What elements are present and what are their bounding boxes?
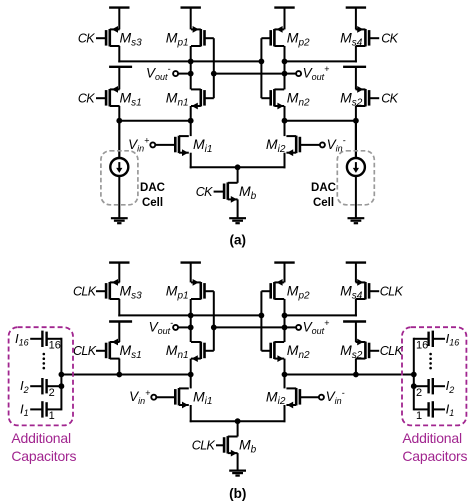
ground (DAC cell)	[111, 218, 128, 223]
capacitor bus (L bank)	[60, 338, 62, 411]
wire left output column (M_p1/M_n1 drains) (a)	[190, 46, 192, 89]
svg-text:Ms2: Ms2	[340, 90, 363, 109]
svg-text:Mn2: Mn2	[287, 90, 310, 109]
VDD rail symbol (M_s1, a)	[109, 67, 132, 90]
VDD rail symbol (M_s2, a)	[343, 67, 366, 90]
transistor M_i2 (a) NMOS	[286, 136, 319, 156]
transistor M_p2 (a) PMOS	[261, 26, 284, 46]
svg-text:Mp2: Mp2	[287, 30, 310, 49]
svg-text:CLK: CLK	[73, 344, 97, 358]
wire M_i1 source down (b)	[190, 405, 192, 422]
wire M_i1 source down (a)	[190, 153, 192, 169]
VDD rail symbol (right, M_s4, a)	[346, 8, 366, 30]
wire right output net: M_p2 drain to M_s4 drain (a)	[285, 60, 357, 62]
wire M_s2 drain to internal node (a)	[355, 106, 357, 122]
junction left internal node at M_n1 source (a)	[188, 118, 194, 124]
transistor M_s2 (a) PMOS	[356, 86, 380, 106]
input terminal V_in- (a)	[320, 142, 325, 147]
svg-text:Ms1: Ms1	[120, 342, 142, 361]
wire left output net: M_s3 drain across to right gate column (a)	[118, 60, 261, 62]
svg-text:Vin+: Vin+	[129, 388, 150, 406]
ground (tail, a)	[229, 218, 246, 223]
junction right internal node at M_n2 source (a)	[282, 118, 288, 124]
wire tail to M_b drain (b)	[237, 421, 239, 436]
junction right output net at left gate column (a)	[211, 71, 217, 77]
junction right output at M_p2 drain (b)	[282, 325, 288, 331]
junction capacitor bus to circuit (L bank)	[59, 372, 65, 378]
svg-text:1: 1	[416, 410, 422, 422]
svg-text:Vin+: Vin+	[128, 136, 149, 154]
svg-text:CLK: CLK	[380, 344, 404, 358]
svg-text:DAC: DAC	[140, 182, 165, 194]
VDD rail symbol (M_p2, b)	[274, 263, 294, 283]
wire M_n1 source / M_i1 drain column (a)	[190, 106, 192, 136]
junction right output at M_p2 drain (a)	[282, 71, 288, 77]
junction right internal node at M_s2 drain (a)	[353, 118, 359, 124]
svg-text:Mb: Mb	[239, 183, 257, 202]
wire right output net: M_p2 drain to M_s4 drain (b)	[285, 314, 357, 316]
svg-text:I16: I16	[15, 331, 29, 348]
junction capacitor bus to circuit (R bank)	[411, 372, 417, 378]
capacitor bus (R bank)	[413, 338, 415, 411]
junction at M_p2 drain upper (b)	[282, 313, 288, 319]
transistor M_n1 (b) NMOS	[191, 342, 214, 362]
transistor M_s2 (b) PMOS	[356, 339, 380, 359]
svg-text:CLK: CLK	[192, 439, 216, 453]
svg-text:I2: I2	[20, 378, 29, 395]
ground (tail, b)	[229, 471, 246, 476]
svg-text:Ms4: Ms4	[340, 283, 363, 302]
ellipsis dots (L bank)	[43, 353, 46, 370]
wire M_i2 source down (b)	[284, 405, 286, 422]
svg-text:Capacitors: Capacitors	[402, 448, 467, 464]
wire right gate column (b)	[260, 291, 262, 351]
transistor M_b (b) NMOS	[216, 436, 238, 456]
junction V_out- at left output column (a)	[188, 71, 194, 77]
junction at M_p2 drain upper (a)	[282, 59, 288, 65]
svg-text:Mn2: Mn2	[287, 342, 310, 361]
VDD rail symbol (M_s1, b)	[109, 322, 132, 343]
wire M_n2 source / M_i2 drain column (b)	[284, 359, 286, 389]
junction left internal node at M_s1 drain (a)	[116, 118, 122, 124]
transistor M_s1 (b) PMOS	[96, 339, 120, 359]
VDD rail symbol (left, M_s3, b)	[109, 263, 129, 283]
junction right internal node at M_s2 drain (b)	[353, 372, 359, 378]
transistor M_p2 (b) PMOS	[261, 279, 284, 299]
wire right output column (M_p2/M_n2 drains) (b)	[284, 299, 286, 342]
transistor M_p1 (a) PMOS	[191, 26, 214, 46]
wire right output column (M_p2/M_n2 drains) (a)	[284, 46, 286, 89]
junction left output at M_p1 drain (b)	[188, 313, 194, 319]
wire right internal node row (a)	[285, 120, 356, 122]
transistor M_s3 (a) PMOS	[96, 26, 120, 46]
svg-text:16: 16	[416, 340, 428, 352]
wire M_s4 drain to output row (b)	[355, 299, 357, 316]
svg-text:2: 2	[49, 387, 55, 399]
Additional Capacitors dashed box (R bank)	[402, 327, 466, 425]
Additional Capacitors dashed box (L bank)	[9, 327, 73, 425]
transistor M_i1 (a) NMOS	[156, 136, 189, 156]
svg-text:Mi1: Mi1	[193, 388, 212, 407]
transistor M_n2 (a) NMOS	[261, 89, 284, 109]
svg-text:I16: I16	[446, 331, 460, 348]
svg-text:Ms3: Ms3	[120, 30, 143, 49]
svg-text:(a): (a)	[230, 232, 247, 247]
DAC cell dashed box	[101, 151, 138, 205]
wire DAC current source to ground	[355, 176, 357, 219]
svg-text:Vout+: Vout+	[303, 64, 330, 82]
svg-text:I2: I2	[446, 378, 455, 395]
output terminal V_out- (b)	[173, 325, 191, 330]
wire left gate column (b)	[213, 291, 215, 351]
output terminal V_out- (a)	[173, 71, 191, 76]
junction tail node (a)	[235, 164, 241, 170]
junction capacitor C2 (L bank)	[59, 383, 65, 389]
junction left output at right gate column (b)	[259, 313, 265, 319]
VDD rail symbol (M_p2, a)	[274, 8, 294, 30]
svg-text:Mb: Mb	[239, 437, 257, 456]
svg-text:Vin-: Vin-	[326, 388, 345, 406]
wire M_b source to ground (a)	[237, 199, 239, 218]
svg-text:Mi2: Mi2	[266, 136, 286, 155]
svg-text:Mn1: Mn1	[166, 90, 189, 109]
VDD rail symbol (M_s2, b)	[343, 322, 366, 343]
ground (DAC cell)	[348, 218, 365, 223]
transistor M_s3 (b) PMOS	[96, 279, 120, 299]
wire internal node to DAC current source	[355, 122, 357, 158]
wire M_s3 drain to output row (b)	[118, 299, 120, 316]
DAC current source	[110, 158, 128, 176]
wire internal node to DAC current source	[118, 122, 120, 158]
junction tail node (b)	[235, 418, 241, 424]
svg-text:CLK: CLK	[380, 285, 404, 299]
svg-text:CK: CK	[78, 32, 95, 46]
junction right output net at left gate column (b)	[211, 325, 217, 331]
transistor M_s4 (b) PMOS	[356, 279, 380, 299]
input terminal V_in- (b)	[319, 395, 324, 400]
svg-text:16: 16	[49, 340, 61, 352]
wire M_n1 source / M_i1 drain column (b)	[190, 359, 192, 389]
svg-text:Capacitors: Capacitors	[11, 448, 76, 464]
transistor M_i2 (b) NMOS	[286, 388, 318, 408]
svg-text:Mp2: Mp2	[287, 283, 310, 302]
svg-text:Ms2: Ms2	[340, 342, 363, 361]
svg-text:Cell: Cell	[142, 197, 163, 209]
wire right output net to left gate column (b)	[214, 326, 285, 328]
wire tail to M_b drain (a)	[237, 167, 239, 183]
svg-text:Mi2: Mi2	[266, 388, 286, 407]
wire M_s1 drain to internal node (b)	[118, 359, 120, 376]
transistor M_s1 (a) PMOS	[96, 86, 120, 106]
svg-text:Mp1: Mp1	[166, 283, 189, 302]
svg-text:Additional: Additional	[402, 430, 462, 446]
VDD rail symbol (right, M_s4, b)	[346, 263, 366, 283]
VDD rail symbol (left, M_s3)	[109, 8, 129, 30]
DAC current source	[347, 158, 365, 176]
svg-text:Mp1: Mp1	[166, 30, 189, 49]
junction right internal node at M_n2 source (b)	[282, 372, 288, 378]
wire M_s1 drain to internal node (a)	[118, 106, 120, 122]
ellipsis dots (R bank)	[429, 353, 432, 370]
wire M_b source to ground (b)	[237, 453, 239, 471]
transistor M_i1 (b) NMOS	[157, 388, 189, 408]
wire left internal node row (a)	[119, 120, 190, 122]
svg-text:Additional: Additional	[11, 430, 71, 446]
svg-text:CK: CK	[196, 185, 213, 199]
svg-text:Mn1: Mn1	[166, 342, 189, 361]
wire left gate column (a)	[213, 38, 215, 98]
capacitor C16 (R bank)	[414, 331, 445, 347]
junction V_out- at left output column (b)	[188, 325, 194, 331]
svg-text:2: 2	[416, 387, 422, 399]
transistor M_n1 (a) NMOS	[191, 89, 214, 109]
svg-text:Mi1: Mi1	[193, 136, 212, 155]
svg-text:(b): (b)	[229, 486, 246, 501]
transistor M_p1 (b) PMOS	[191, 279, 214, 299]
wire left internal node row (b)	[61, 374, 190, 376]
svg-text:I1: I1	[20, 401, 29, 418]
svg-text:Ms4: Ms4	[340, 30, 363, 49]
junction left internal node at M_n1 source (b)	[188, 372, 194, 378]
wire right output net to left gate column (a)	[214, 73, 285, 75]
capacitor C2 (L bank)	[30, 378, 61, 394]
wire right gate column (a)	[260, 38, 262, 98]
capacitor C16 (L bank)	[30, 331, 61, 347]
junction left output at M_p1 drain (a)	[188, 59, 194, 65]
DAC cell dashed box	[337, 151, 374, 205]
wire left output column (M_p1/M_n1 drains) (b)	[190, 299, 192, 342]
input terminal V_in+ (b)	[151, 395, 156, 400]
wire tail node row (a)	[190, 166, 286, 168]
capacitor C1 (R bank)	[414, 401, 445, 417]
wire left output net: M_s3 drain across to right gate column (b)	[118, 314, 261, 316]
junction left output at right gate column (a)	[259, 59, 265, 65]
wire right internal node row (b)	[285, 374, 414, 376]
svg-text:CK: CK	[381, 32, 398, 46]
capacitor C2 (R bank)	[414, 378, 445, 394]
output terminal V_out+ (b)	[285, 325, 302, 330]
wire M_s4 drain to output row (a)	[355, 46, 357, 62]
svg-text:CLK: CLK	[73, 285, 97, 299]
wire M_n2 source / M_i2 drain column (a)	[284, 106, 286, 136]
svg-text:Ms1: Ms1	[120, 90, 142, 109]
wire tail node row (b)	[190, 420, 286, 422]
svg-text:Vout+: Vout+	[303, 318, 330, 336]
svg-text:DAC: DAC	[311, 182, 336, 194]
svg-text:CK: CK	[381, 92, 398, 106]
input terminal V_in+ (a)	[150, 142, 155, 147]
transistor M_b (a) NMOS	[214, 182, 238, 202]
svg-text:Cell: Cell	[313, 197, 334, 209]
transistor M_n2 (b) NMOS	[261, 342, 284, 362]
capacitor C1 (L bank)	[30, 401, 61, 417]
wire DAC current source to ground	[118, 176, 120, 219]
svg-text:Ms3: Ms3	[120, 283, 143, 302]
wire M_s3 drain to output row (a)	[118, 46, 120, 62]
junction capacitor C2 (R bank)	[411, 383, 417, 389]
transistor M_s4 (a) PMOS	[356, 26, 380, 46]
output terminal V_out+ (a)	[285, 71, 302, 76]
junction left internal node at M_s1 drain (b)	[116, 372, 122, 378]
svg-text:1: 1	[49, 410, 55, 422]
VDD rail symbol (M_p1, b)	[181, 263, 201, 283]
svg-text:I1: I1	[446, 401, 455, 418]
svg-text:CK: CK	[78, 92, 95, 106]
svg-text:Vout-: Vout-	[146, 64, 171, 82]
wire M_s2 drain to internal node (b)	[355, 359, 357, 376]
VDD rail symbol (M_p1, a)	[181, 8, 201, 30]
wire M_i2 source down (a)	[284, 153, 286, 169]
svg-text:Vout-: Vout-	[149, 318, 174, 336]
